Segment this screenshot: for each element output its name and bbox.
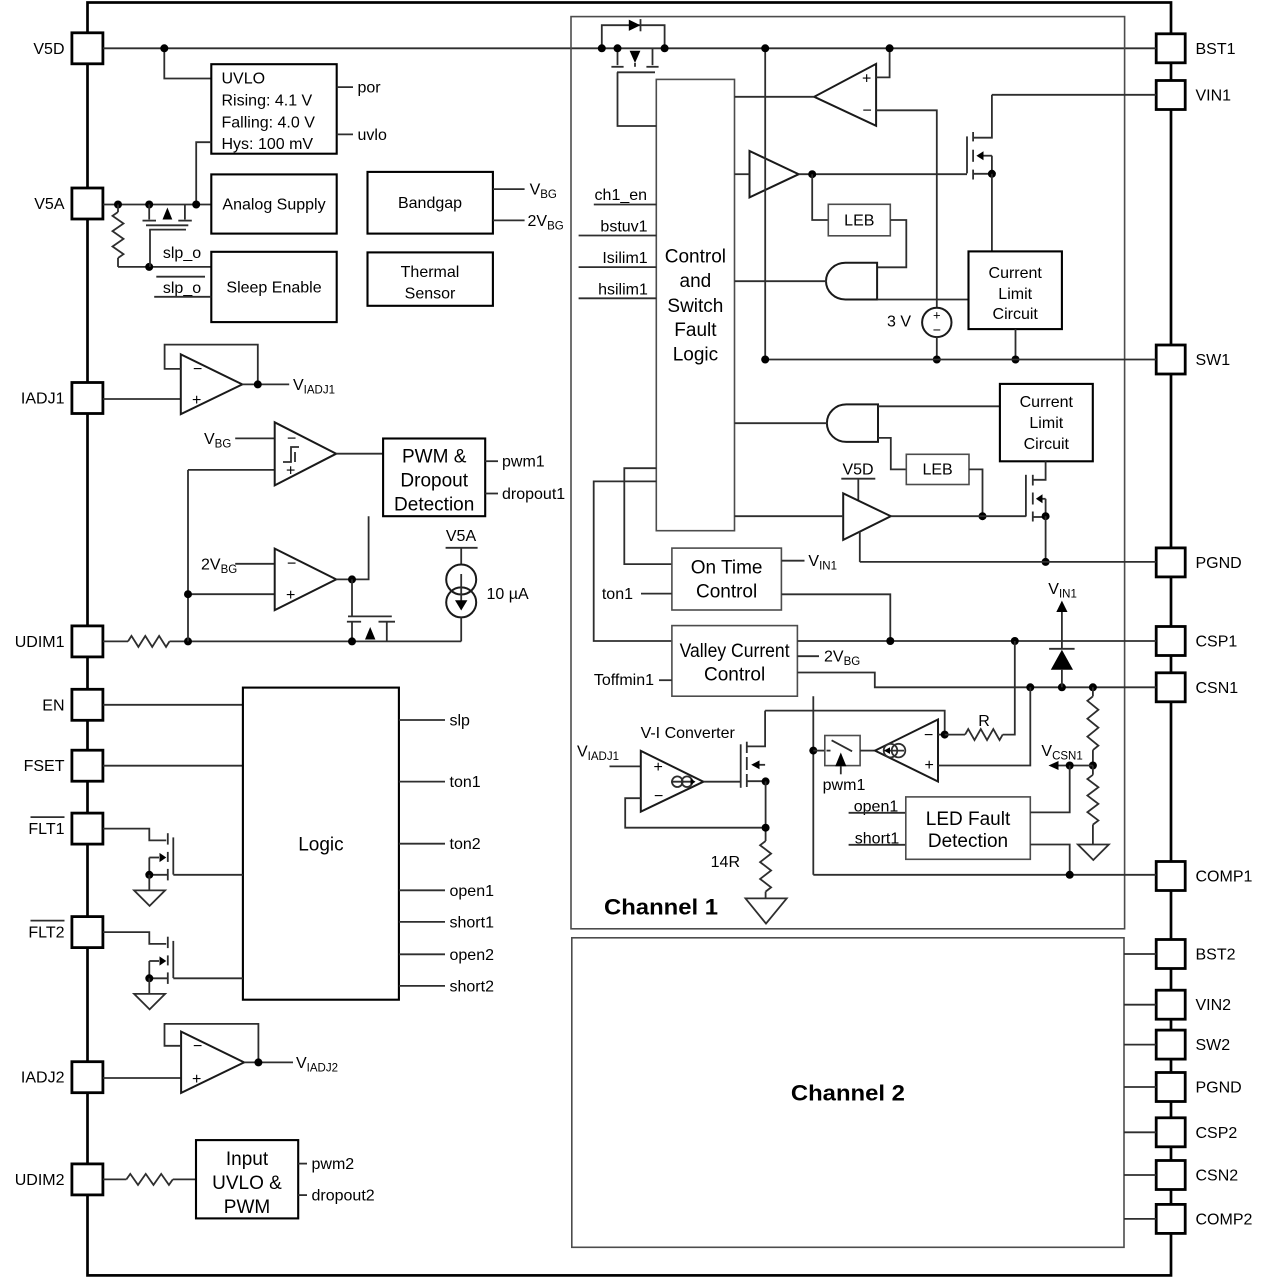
wire UDIM1 net [170,640,462,642]
pin UDIM2 [72,1164,103,1195]
node 3V SW1 junction [933,356,941,364]
wire U2 output [336,453,383,455]
svg-text:V5A: V5A [446,528,477,545]
node LS FET source [1042,512,1050,520]
wire pwm2 stub [298,1163,307,1165]
svg-text:UDIM2: UDIM2 [15,1172,65,1189]
wire HS FET drain [973,95,992,138]
svg-text:pwm2: pwm2 [312,1156,355,1173]
svg-text:Thermal: Thermal [401,264,460,281]
node erramp R node [941,731,949,739]
pin VIN1 (right 1) [1156,81,1185,110]
node CSP1 ontime junction [886,637,894,645]
svg-text:IADJ1: IADJ1 [21,391,65,408]
pin CSP1 (right 4) [1156,627,1185,656]
node BST-SW bottom [761,356,769,364]
svg-text:Logic: Logic [298,835,343,856]
svg-text:Current: Current [989,265,1043,282]
node CSN1 erramp junction [1026,683,1034,691]
wire V5D rail drop [857,479,859,501]
resistor R [965,729,1003,740]
op-amp gm error amp [875,720,938,782]
svg-text:PGND: PGND [1196,555,1242,572]
svg-text:bstuv1: bstuv1 [600,219,647,236]
svg-text:Sensor: Sensor [405,286,456,303]
wire A2 output [244,1061,293,1063]
pin EN [72,689,103,720]
block UVLO [211,64,336,154]
resistor 14R [760,841,771,892]
svg-text:−: − [924,727,933,744]
svg-text:+: + [862,71,871,88]
transistor LS FET bulk arrow [1042,498,1046,500]
wire FLT gate [103,932,166,944]
resistor divider lower [1092,766,1094,775]
svg-text:Sleep Enable: Sleep Enable [226,280,321,297]
wire U3 output to FET gate [351,579,353,616]
svg-text:Rising: 4.1 V: Rising: 4.1 V [222,93,313,110]
svg-text:V5D: V5D [33,41,64,58]
node CSP1 R junction [1011,637,1019,645]
transistor VI FET bulk arrow [753,764,765,766]
wire valley to switch [813,750,825,752]
pin FSET [72,750,103,781]
wire FLT drain to Logic [173,874,243,876]
pin SW1 (right 2) [1156,345,1185,374]
wire bypass FET gate to Control [618,72,657,126]
transistor FLT bulk arrow [149,960,159,962]
wire Channel2 PGND2 stub [1124,1086,1156,1088]
node U3 output branch [348,575,356,583]
wire AND1 out to Control [735,280,828,282]
node VCSN1 led junction [1066,762,1074,770]
wire dropout1 stub [485,493,498,495]
svg-text:Current: Current [1020,394,1074,411]
transistor bypass FET gate bar [617,71,655,73]
block Logic [243,688,399,1000]
wire V5D rail [103,47,1156,49]
wire U4 - to SW via 3V [876,110,937,307]
svg-text:−: − [287,556,296,573]
wire Channel2 SW2 stub [1124,1044,1156,1046]
pin COMP2 (right 13) [1156,1204,1185,1233]
svg-text:−: − [933,322,941,338]
pin PGND (right 10) [1156,1073,1185,1102]
source 3V [922,308,951,337]
transistor FLT bulk arrow [149,857,159,859]
svg-text:Isilim1: Isilim1 [602,250,647,267]
ground 14R [746,898,787,923]
wire VI FET source [747,780,765,782]
wire FLT source [148,858,150,875]
wire slp_o net [118,266,211,268]
wire Control to OnTime [624,468,672,564]
node UDIM FET source [348,637,356,645]
node V5D-UVLO junction [160,44,168,52]
node VI feedback junction [762,824,770,832]
block Input UVLO and PWM [196,1140,298,1218]
wire Channel2 COMP2 stub [1124,1218,1156,1220]
Channel 1 boundary [571,17,1125,929]
transistor HS FET gate bar [966,136,968,173]
transistor FLT channel [167,833,169,844]
node slp_o junction [145,263,153,271]
svg-text:open1: open1 [450,883,495,900]
wire current source out [460,617,462,641]
svg-text:UDIM1: UDIM1 [15,634,65,651]
svg-text:COMP2: COMP2 [1196,1211,1253,1228]
pin V5A [72,188,103,219]
wire LS FET drain [1033,461,1046,480]
block Bandgap [368,172,493,234]
wire Logic out open2 [399,953,445,955]
transistor sleep FET legs [148,205,150,220]
transistor UDIM FET legs [351,622,353,642]
resistor pulldown V5A [117,205,119,213]
svg-text:and: and [680,271,712,292]
svg-text:10 µA: 10 µA [487,586,529,603]
node UDIM1 sense mid [184,590,192,598]
resistor UDIM1 series [128,636,170,647]
block LEB2 [906,454,969,484]
wire slp_o inverted net [154,296,211,298]
pin BST2 (right 7) [1156,940,1185,969]
Channel 2 boundary [572,938,1124,1248]
svg-text:slp_o: slp_o [163,245,201,262]
svg-text:CSN1: CSN1 [1196,680,1239,697]
power V5A rail bar [446,547,478,549]
svg-text:−: − [193,1038,202,1055]
wire VI source down [765,781,767,841]
wire FLT to ground [148,875,150,891]
svg-text:Bandgap: Bandgap [398,195,462,212]
svg-text:Control: Control [704,665,765,686]
wire diode anode [1061,670,1063,688]
wire V5A rail drop [460,548,462,565]
pin COMP1 (right 6) [1156,862,1185,891]
svg-text:CSN2: CSN2 [1196,1168,1239,1185]
wire U3 output [336,516,368,579]
wire uvlo stub [337,133,353,135]
wire EN to Logic [103,704,243,706]
wire Channel2 CSP2 stub [1124,1131,1156,1133]
wire HS source to CL1 [991,174,993,252]
current source 10uA [446,565,476,595]
wire FLT source [148,961,150,978]
svg-text:Control: Control [665,247,726,268]
wire VIN1 [992,94,1156,96]
svg-text:Limit: Limit [1029,415,1063,432]
svg-text:IADJ2: IADJ2 [21,1070,65,1087]
gate AND1 [826,263,877,300]
node COMP1 led junction [1066,871,1074,879]
transistor VI FET channel [746,742,748,753]
svg-text:V5A: V5A [34,196,65,213]
svg-text:Fault: Fault [674,320,717,341]
wire Channel2 BST2 stub [1124,953,1156,955]
wire FLT to ground [148,978,150,994]
block LED Fault Detection [906,797,1031,859]
wire Control to Valley [594,481,672,641]
comparator U4 BST-UV [814,64,876,126]
pin UDIM1 [72,626,103,657]
transistor sleep FET bulk arrow [163,208,173,220]
pin BST1 (right 0) [1156,34,1185,63]
transistor bypass FET legs [617,48,619,65]
wire UDIM2 to block [173,1178,196,1180]
wire bstuv1 [579,235,657,237]
resistor divider upper [1092,687,1094,696]
wire SW1 rail [765,359,1156,361]
svg-text:On Time: On Time [691,558,763,579]
node CSN1 divider junction [1089,683,1097,691]
block PWM and Dropout Detection [383,439,485,517]
node FLT source [145,974,153,982]
transistor LS FET channel [1032,475,1034,486]
svg-text:Circuit: Circuit [1024,436,1070,453]
wire Isilim1 [579,266,657,268]
svg-text:CSP1: CSP1 [1196,634,1238,651]
wire CSP1 net [797,640,1156,642]
wire driver1 out to LEB1 [812,174,828,220]
svg-text:pwm1: pwm1 [823,777,866,794]
op-amp A2 IADJ2 buffer [181,1032,244,1093]
svg-text:BST1: BST1 [1196,41,1236,58]
svg-text:BST2: BST2 [1196,947,1236,964]
wire CL1 to SW1 [1015,329,1017,359]
node LEB2 gate tap [979,512,987,520]
wire LED out2 to COMP1 [1030,845,1069,875]
node BST rail comp tap [886,44,894,52]
svg-text:FSET: FSET [24,758,65,775]
wire VCSN1 tap [1058,765,1093,767]
svg-text:LEB: LEB [844,213,874,230]
wire VBG to comp - [235,437,275,439]
block Sleep Enable [211,252,336,322]
op-amp A1 IADJ1 buffer [181,354,243,414]
node VCSN1 tap [1089,762,1097,770]
node BST-SW top [761,44,769,52]
transistor bypass FET bulk arrow [630,51,641,63]
svg-text:Switch: Switch [667,296,723,317]
wire erramp + input [938,687,1030,765]
wire driver2 to LS gate [891,515,1026,517]
wire Channel2 CSN2 stub [1124,1174,1156,1176]
svg-text:PWM: PWM [224,1197,270,1218]
buffer driver2 [843,493,891,540]
buffer driver1 [750,151,799,197]
pin CSP2 (right 11) [1156,1118,1185,1147]
svg-text:PWM &: PWM & [402,447,467,468]
wire Logic out ton2 [399,843,445,845]
svg-text:dropout1: dropout1 [502,486,565,503]
svg-text:Toffmin1: Toffmin1 [594,672,654,689]
svg-text:Valley Current: Valley Current [680,641,791,662]
svg-text:Control: Control [696,582,757,603]
svg-text:Analog Supply: Analog Supply [222,197,325,214]
wire ch1_en [594,204,657,206]
svg-text:por: por [358,80,382,97]
block LEB1 [828,204,890,236]
svg-text:FLT1: FLT1 [28,821,64,838]
wire BST to SW vertical [764,48,766,359]
wire V-I out to gate [703,781,740,783]
resistor UDIM2 series [126,1174,172,1185]
node bootstrap anode [598,44,606,52]
diode bootstrap [629,20,641,31]
wire LS source to PGND [1045,516,1047,562]
wire VIADJ1 to V-I + [610,765,641,767]
wire 2VBG stub [493,219,525,221]
wire IADJ1 to op-amp + [103,398,181,400]
wire 2VBG to comp - [235,563,275,565]
node V5A resistor tap [114,201,122,209]
svg-text:Logic: Logic [673,345,718,366]
wire LS FET bulk riser [1045,499,1047,516]
svg-text:Channel 2: Channel 2 [791,1081,905,1106]
svg-text:SW1: SW1 [1196,352,1231,369]
node V5A FET source [145,201,153,209]
transistor FLT drain bar [172,941,174,978]
svg-text:PGND: PGND [1196,1080,1242,1097]
wire V5D to UVLO [164,48,211,78]
wire UDIM sense to comp + [188,469,275,471]
svg-text:Falling: 4.0 V: Falling: 4.0 V [222,114,316,131]
transistor UDIM FET bulk arrow [365,627,375,640]
svg-text:Dropout: Dropout [400,471,468,492]
wire VIN1 arrow riser [1061,611,1063,649]
transistor HS FET channel [972,132,974,141]
svg-text:pwm1: pwm1 [502,454,545,471]
wire switch to erramp [860,750,875,752]
wire Logic out ton1 [399,781,445,783]
power V5D rail bar [841,478,875,480]
node UDIM1 sense [184,637,192,645]
svg-text:+: + [925,757,934,774]
node driver1 out [808,170,816,178]
svg-text:slp_o: slp_o [163,280,201,297]
wire FSET to Logic [103,765,243,767]
svg-text:VIN2: VIN2 [1196,997,1232,1014]
block Current Limit Circuit 1 [969,251,1062,329]
wire pwm1 stub [485,460,498,462]
wire AND2 in from CL2 [878,405,1000,407]
wire Toffmin1 in [659,679,672,681]
svg-text:+: + [933,308,941,323]
svg-text:ton1: ton1 [450,774,481,791]
wire driver2 to PGND [859,532,861,562]
wire R to CSP1 [1003,641,1015,735]
wire UDIM sense to comp2 + [188,593,275,595]
block Analog Supply [211,174,336,233]
svg-text:Detection: Detection [928,831,1008,852]
wire Logic out open1 [399,889,445,891]
svg-text:−: − [654,788,663,805]
svg-text:UVLO: UVLO [222,71,266,88]
wire OnTime to CSP1 net [781,594,890,641]
svg-text:uvlo: uvlo [358,127,387,144]
pin VIN2 (right 8) [1156,990,1185,1019]
wire UVLO to V5A node [196,142,211,204]
svg-text:Circuit: Circuit [993,306,1039,323]
svg-text:ton2: ton2 [450,836,481,853]
wire AND1 in from CL1 [877,299,968,301]
wire open1 [849,812,906,814]
pin V5D [72,33,103,64]
svg-text:V-I Converter: V-I Converter [641,725,736,742]
wire AND2 out to Control [735,422,828,424]
pin IADJ1 [72,383,103,414]
pin FLT1 [72,813,103,844]
wire sleep FET gate [149,230,151,267]
wire U4 + to BST rail [876,48,890,77]
transistor UDIM FET contacts [347,621,361,623]
wire IADJ2 to op-amp + [103,1077,181,1079]
wire UDIM1 sense riser [187,470,189,642]
comparator U2 hysteresis [275,422,337,485]
wire Channel2 VIN2 stub [1124,1004,1156,1006]
op-amp gm V-I [641,751,704,812]
svg-text:CSP2: CSP2 [1196,1125,1238,1142]
svg-text:dropout2: dropout2 [312,1188,375,1205]
wire Logic out short2 [399,985,445,987]
node bypass FET left [614,44,622,52]
svg-text:open2: open2 [450,947,495,964]
svg-text:+: + [654,759,663,776]
svg-text:ton1: ton1 [602,586,633,603]
transistor UDIM FET gate bar [348,615,392,617]
block Valley Current Control [672,626,798,697]
node valley pwm tap [809,747,817,755]
svg-text:Input: Input [226,1149,269,1170]
wire Control to driver1 [735,173,750,175]
ground divider [1078,845,1109,861]
svg-text:SW2: SW2 [1196,1037,1231,1054]
svg-text:EN: EN [42,697,64,714]
ground FLT [134,890,165,906]
wire Logic out short1 [399,921,445,923]
svg-text:Detection: Detection [394,495,474,516]
svg-text:slp: slp [450,713,471,730]
node LS PGND junction [1042,558,1050,566]
pin CSN1 (right 5) [1156,673,1185,702]
diode bootstrap loop [602,25,665,48]
wire 14R to ground [765,892,767,899]
svg-text:Limit: Limit [998,286,1032,303]
wire U4 output to Control [735,96,815,98]
node A1 output [254,380,262,388]
ground FLT [134,994,165,1010]
wire 3V to SW1 [936,337,938,359]
pin PGND (right 3) [1156,548,1185,577]
wire UDIM2 pin [103,1178,127,1180]
node HS FET source [988,170,996,178]
transistor FLT channel [167,937,169,948]
gate AND2 [827,404,878,442]
svg-text:R: R [978,713,990,730]
svg-text:LEB: LEB [922,462,952,479]
node A2 output [254,1058,262,1066]
svg-text:14R: 14R [711,854,740,871]
svg-text:Hys: 100 mV: Hys: 100 mV [222,136,314,153]
wire V5A rail [103,204,211,206]
block Current Limit Circuit 2 [1000,384,1093,461]
wire LED out1 to VCSN1 [1030,766,1069,813]
wire Valley to COMP1 [812,696,814,875]
wire Control to driver2 [735,515,844,517]
wire UDIM1 pin [103,640,128,642]
wire VI drain to R node [765,711,945,735]
